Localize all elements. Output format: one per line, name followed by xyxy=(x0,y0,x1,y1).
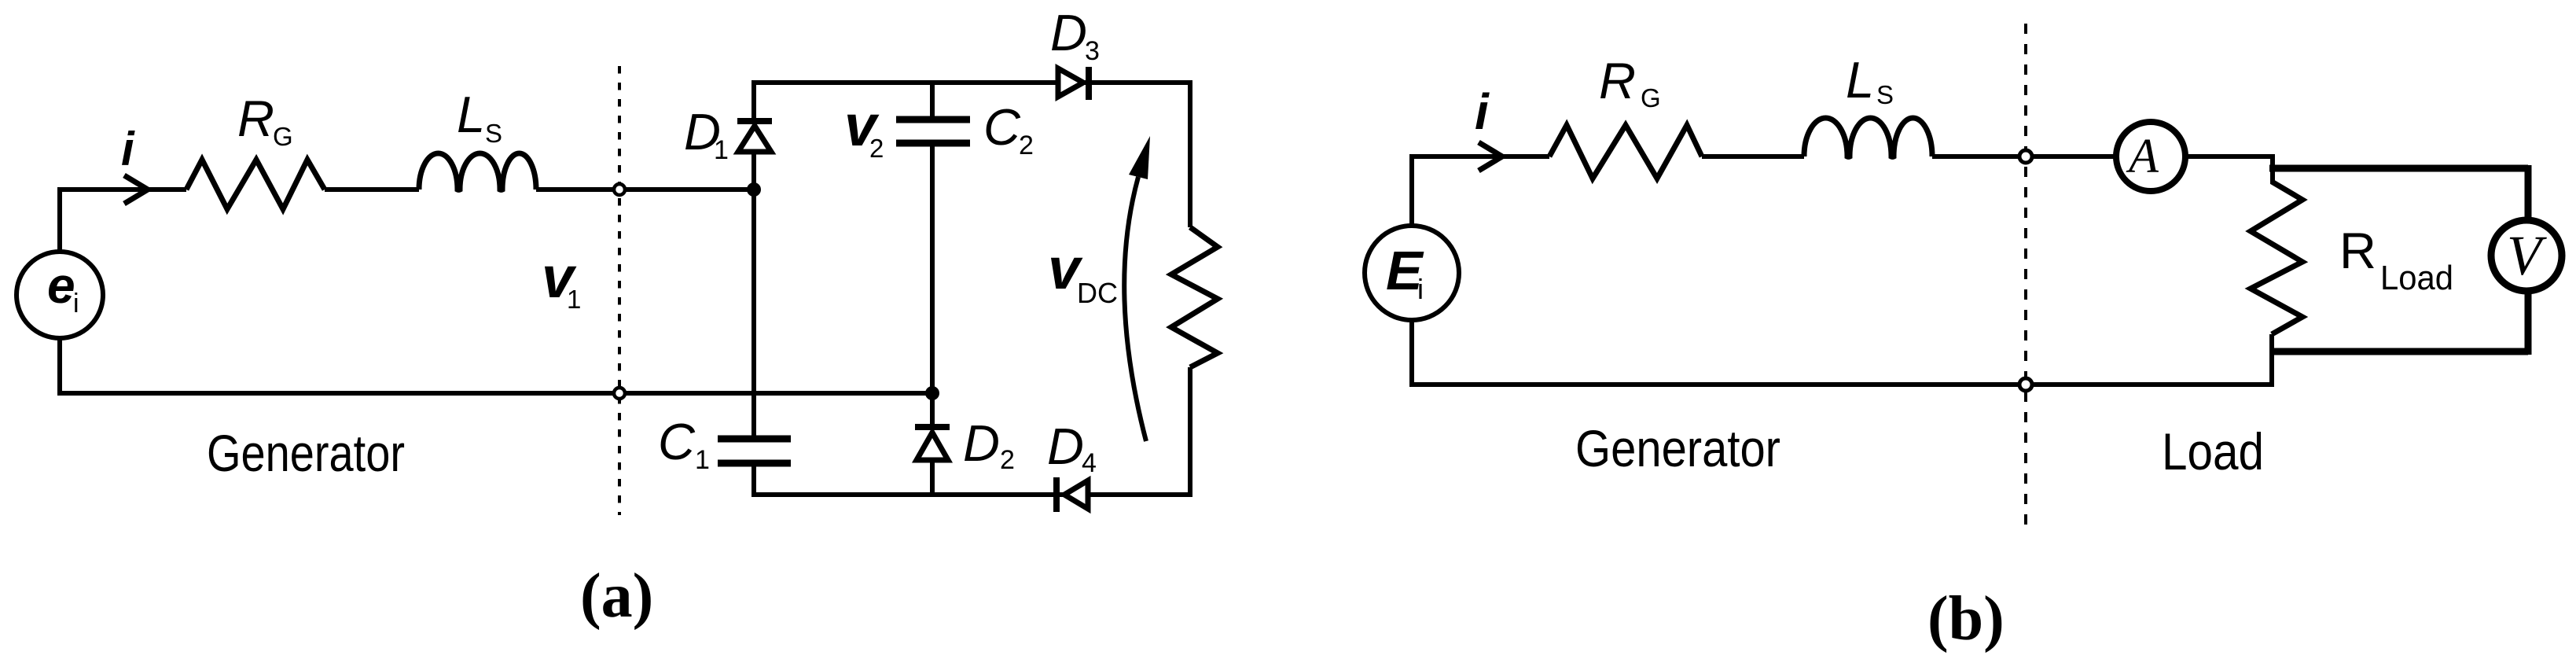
wire bottom node to load (b) xyxy=(2032,382,2274,387)
svg-text:D: D xyxy=(1050,4,1087,61)
wire bottom left horizontal xyxy=(57,391,614,396)
current arrow (b) xyxy=(1479,142,1502,171)
wire top left horizontal xyxy=(57,187,186,192)
svg-text:i: i xyxy=(1475,83,1490,140)
diode D2 triangle xyxy=(917,433,948,460)
svg-text:R: R xyxy=(237,90,274,147)
wire between RG and LS (a) xyxy=(325,187,419,192)
diode D1 triangle xyxy=(738,126,771,152)
svg-text:2: 2 xyxy=(1000,445,1015,475)
svg-text:i: i xyxy=(73,289,79,318)
capacitor C1 top plate xyxy=(718,436,791,443)
svg-text:L: L xyxy=(1846,51,1874,109)
svg-text:L: L xyxy=(457,86,485,143)
svg-text:1: 1 xyxy=(567,285,581,314)
load resistor (a) xyxy=(1171,227,1218,367)
junction dot at D2 branch xyxy=(925,386,939,400)
wire source bottom vertical (b) xyxy=(1409,320,1414,385)
capacitor C1 bottom plate xyxy=(718,460,791,467)
C1 to bottom rail wire xyxy=(751,463,756,497)
vDC arrow shaft xyxy=(1124,177,1146,441)
svg-text:(b): (b) xyxy=(1927,584,2005,653)
capacitor C2 top plate xyxy=(896,116,970,123)
diode D4 triangle xyxy=(1064,480,1088,509)
wire LS to node (b) xyxy=(1932,154,2019,159)
C2 branch top stub xyxy=(930,80,935,118)
svg-text:V: V xyxy=(2507,224,2547,287)
svg-text:D: D xyxy=(1047,418,1084,475)
svg-text:S: S xyxy=(485,119,502,148)
top rail of bridge xyxy=(754,80,1190,85)
voltmeter branch vertical xyxy=(2525,165,2532,355)
svg-text:2: 2 xyxy=(1019,131,1034,160)
svg-text:e: e xyxy=(47,257,75,314)
svg-text:R: R xyxy=(1599,52,1636,109)
wire LS to node v1 top xyxy=(536,187,614,192)
svg-text:DC: DC xyxy=(1077,277,1118,309)
inductor LS (a) xyxy=(419,153,536,190)
D1 to C1 wire xyxy=(751,154,756,439)
dashed boundary line (a) xyxy=(618,66,621,515)
wire source top vertical xyxy=(57,190,62,252)
wire bottom horizontal (b) left xyxy=(1409,382,2019,387)
svg-text:G: G xyxy=(273,122,293,151)
wire node to ammeter xyxy=(2032,154,2116,159)
wire source top vertical (b) xyxy=(1409,156,1414,226)
current arrow (a) xyxy=(124,175,148,204)
resistor RG (b) xyxy=(1549,125,1702,179)
capacitor C2 bottom plate xyxy=(896,140,970,147)
load top thick rail xyxy=(2269,165,2528,172)
right vertical wire upper (a) xyxy=(1188,80,1192,227)
svg-text:C: C xyxy=(658,413,696,470)
svg-text:i: i xyxy=(1417,273,1424,305)
svg-text:1: 1 xyxy=(695,445,710,475)
wire bottom node to D2 branch xyxy=(625,391,932,396)
wire source bottom vertical xyxy=(57,338,62,393)
source e1 circle xyxy=(17,252,103,338)
wire RG to LS (b) xyxy=(1702,154,1804,159)
diode D3 triangle xyxy=(1058,68,1083,97)
resistor RG (a) xyxy=(186,160,325,209)
svg-text:Load: Load xyxy=(2162,422,2264,480)
svg-text:Generator: Generator xyxy=(207,424,405,482)
corner jog down to load xyxy=(2270,154,2275,184)
wire ammeter to load corner xyxy=(2185,154,2273,159)
wire load bottom vertical xyxy=(2269,334,2274,387)
svg-text:Load: Load xyxy=(2380,259,2453,297)
svg-text:D: D xyxy=(963,414,1000,472)
diode D1 cathode bar xyxy=(737,118,772,124)
svg-text:i: i xyxy=(121,123,135,175)
wire top left horizontal (b) xyxy=(1409,154,1549,159)
right vertical wire lower (a) xyxy=(1188,367,1192,497)
node v1 top (open) xyxy=(614,184,625,195)
svg-text:Generator: Generator xyxy=(1575,419,1780,477)
wire node to D1 branch xyxy=(625,187,754,192)
bottom rail of bridge xyxy=(754,492,1190,497)
ammeter A circle xyxy=(2116,122,2185,191)
svg-text:1: 1 xyxy=(714,135,729,165)
load bottom thick rail xyxy=(2269,348,2528,355)
diode D2 cathode bar xyxy=(915,424,950,430)
svg-text:G: G xyxy=(1641,83,1661,112)
junction dot at D1 branch xyxy=(747,182,761,197)
C2 to junction wire xyxy=(930,143,935,429)
diode D4 cathode bar xyxy=(1053,477,1060,512)
svg-text:A: A xyxy=(2126,130,2159,183)
node v1 bottom (open) xyxy=(614,388,625,399)
svg-text:(a): (a) xyxy=(580,561,653,631)
D1 branch upper wire xyxy=(751,80,756,122)
D2 to bottom rail wire xyxy=(930,462,935,497)
dashed boundary line (b) xyxy=(2024,24,2027,532)
svg-text:4: 4 xyxy=(1082,448,1097,478)
resistor R_Load zigzag xyxy=(2251,182,2302,334)
svg-text:2: 2 xyxy=(869,134,884,163)
voltmeter V circle xyxy=(2491,220,2562,291)
node top (b) open xyxy=(2019,150,2032,163)
svg-text:3: 3 xyxy=(1085,36,1100,66)
source E_i circle xyxy=(1365,226,1459,320)
svg-text:S: S xyxy=(1876,80,1894,109)
vDC arrowhead xyxy=(1129,136,1150,179)
svg-text:C: C xyxy=(983,98,1021,156)
diode D3 cathode bar xyxy=(1086,67,1092,100)
node bottom (b) open xyxy=(2019,378,2032,391)
svg-text:R: R xyxy=(2339,222,2376,279)
inductor LS (b) xyxy=(1804,118,1932,156)
